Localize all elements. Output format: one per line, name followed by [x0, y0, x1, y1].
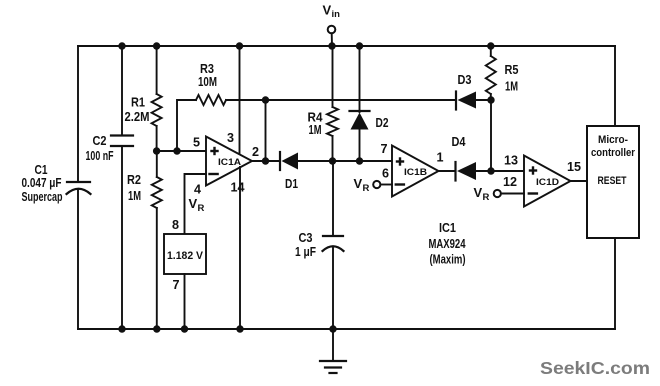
svg-text:V: V [354, 176, 363, 191]
svg-text:C1: C1 [35, 163, 48, 177]
wire R3 left drop [177, 100, 196, 151]
wire right edge lower [614, 238, 616, 329]
op-amp IC1D [524, 156, 571, 207]
svg-text:Supercap: Supercap [22, 190, 63, 204]
svg-text:6: 6 [382, 167, 389, 181]
op-amp IC1B [392, 146, 439, 197]
resistor R2 [152, 177, 162, 208]
svg-text:D4: D4 [452, 135, 466, 149]
diode D3 [456, 92, 476, 110]
junction D3/R5 [487, 96, 494, 103]
svg-text:V: V [323, 3, 332, 18]
junction R4/C3 node [329, 157, 336, 164]
ground [320, 361, 346, 373]
terminal VR pin6 circle [373, 181, 380, 188]
wire R1 lower [156, 126, 158, 151]
svg-text:1M: 1M [128, 189, 141, 203]
junction R2 bottom [153, 325, 160, 332]
svg-text:3: 3 [227, 131, 234, 145]
wire R4 lower [332, 136, 334, 161]
wire left edge upper (above C1) [77, 46, 79, 182]
capacitor C1 [67, 182, 91, 194]
microcontroller box [587, 126, 639, 238]
junction R3 left drop [173, 147, 180, 154]
junction D2 bottom node [356, 157, 363, 164]
resistor R5 [486, 56, 496, 94]
svg-text:R: R [363, 183, 370, 194]
wire D1 to IC1B [298, 160, 392, 162]
wire left edge lower (below C1) [77, 189, 79, 329]
label IC1 MAX924 [429, 220, 467, 267]
terminal VR pin12 circle [494, 190, 501, 197]
svg-text:1.182 V: 1.182 V [167, 250, 204, 262]
junction R1 top [153, 42, 160, 49]
label R3 value [198, 62, 217, 89]
wire C3 lower [332, 247, 334, 330]
op-amp IC1A [206, 137, 252, 186]
svg-text:7: 7 [172, 278, 179, 292]
junction R5 top [487, 42, 494, 49]
svg-text:R1: R1 [131, 96, 145, 110]
wire IC1A output [252, 160, 280, 162]
svg-text:2: 2 [252, 145, 259, 159]
label C3 value [295, 231, 316, 259]
svg-text:D2: D2 [376, 116, 389, 130]
wire R5 upper [490, 46, 492, 56]
svg-text:IC1A: IC1A [218, 157, 241, 168]
svg-text:IC1B: IC1B [404, 167, 427, 178]
wire R5 lower [490, 94, 492, 100]
wire R3 right to D3 [226, 99, 456, 101]
wire C2 upper [121, 46, 123, 136]
svg-text:100 nF: 100 nF [86, 149, 114, 163]
wire bottom ground rail [78, 328, 615, 330]
svg-text:8: 8 [172, 218, 179, 232]
svg-text:7: 7 [380, 142, 387, 156]
wire R2 upper [156, 151, 158, 177]
wire pin14 ground [239, 167, 241, 329]
svg-text:1: 1 [436, 151, 443, 165]
junction C2 bottom [118, 325, 125, 332]
wire ref box to ground [184, 274, 186, 329]
wire top supply rail [78, 45, 615, 47]
wire pin3 supply [239, 46, 241, 155]
svg-text:D3: D3 [458, 73, 472, 87]
svg-text:MAX924: MAX924 [429, 236, 467, 251]
svg-text:2.2M: 2.2M [125, 110, 150, 124]
svg-text:RESET: RESET [598, 175, 627, 187]
wire pin4 inverting input [185, 174, 207, 234]
wire Vin to top rail [331, 33, 333, 46]
capacitor C2 [111, 136, 133, 147]
label R2 value [127, 173, 141, 203]
svg-text:R: R [198, 203, 205, 214]
junction node A (R1/R2/pin5) [153, 147, 160, 154]
label VR node [189, 196, 205, 214]
diode D1 [280, 152, 298, 170]
wire D2 upper [359, 46, 361, 112]
svg-text:C2: C2 [93, 134, 107, 148]
svg-text:14: 14 [230, 181, 244, 195]
svg-text:R2: R2 [127, 173, 141, 187]
svg-text:IC1D: IC1D [536, 177, 559, 188]
diode D4 [456, 162, 477, 181]
junction D4/R5 node [487, 167, 494, 174]
wire D3 to R5 node [476, 99, 491, 101]
wire R5-D3 node drop [490, 100, 492, 171]
svg-text:1M: 1M [505, 80, 518, 94]
svg-text:(Maxim): (Maxim) [430, 252, 466, 267]
svg-text:SeekIC.com: SeekIC.com [540, 358, 650, 378]
terminal Vin circle [328, 26, 336, 34]
svg-text:10M: 10M [198, 75, 217, 89]
svg-text:R5: R5 [505, 63, 519, 77]
svg-text:1 μF: 1 μF [295, 245, 316, 259]
svg-text:1M: 1M [309, 123, 322, 137]
svg-text:0.047 μF: 0.047 μF [22, 176, 62, 190]
wire C2 lower [121, 146, 123, 329]
diode D2 [350, 111, 370, 130]
svg-text:V: V [474, 185, 483, 200]
label R1 value [125, 96, 150, 125]
label C1 value [22, 163, 63, 204]
svg-text:13: 13 [504, 154, 518, 168]
junction Vin/top rail [328, 42, 335, 49]
svg-text:controller: controller [591, 147, 636, 159]
wire D4 to IC1D [476, 170, 524, 172]
svg-text:4: 4 [194, 183, 201, 197]
junction C2 top [118, 42, 125, 49]
wire IC1D output to microcontroller [571, 180, 588, 182]
wire R4 upper [332, 46, 334, 107]
label Vin [323, 3, 341, 21]
resistor R4 [327, 107, 338, 136]
junction output/feedback [262, 157, 269, 164]
svg-text:D1: D1 [285, 177, 298, 191]
wire pin6 stub [380, 184, 392, 186]
resistor R3 [196, 95, 226, 105]
wire C3 upper [332, 161, 334, 236]
resistor R1 [152, 94, 162, 126]
svg-text:Micro-: Micro- [598, 134, 628, 146]
wire right edge upper [614, 46, 616, 126]
label C2 value [86, 134, 114, 163]
junction pin3/top rail [236, 42, 243, 49]
wire feedback drop to output node [265, 100, 267, 161]
svg-text:R3: R3 [200, 62, 214, 76]
svg-text:V: V [189, 196, 198, 211]
junction C3/ground [329, 325, 336, 332]
svg-text:in: in [332, 9, 341, 20]
junction ref/bottom rail [181, 325, 188, 332]
label VR pin6 [354, 176, 370, 194]
wire pin5 input rail [157, 150, 206, 152]
svg-text:R: R [483, 192, 490, 203]
wire D2 lower [359, 130, 361, 162]
label R4 value [308, 111, 323, 138]
wire ground stem [332, 329, 334, 361]
junction R3/feedback drop [262, 96, 269, 103]
svg-text:C3: C3 [299, 231, 313, 245]
capacitor C3 [323, 236, 344, 251]
svg-text:15: 15 [567, 160, 581, 174]
wire R2 lower [156, 208, 158, 329]
svg-text:5: 5 [193, 136, 200, 150]
svg-text:12: 12 [503, 175, 517, 189]
wire pin12 stub [501, 193, 524, 195]
label R5 value [505, 63, 519, 94]
voltage reference 1.182V box [164, 234, 206, 274]
wire IC1B output [439, 170, 456, 172]
junction D2 top [356, 42, 363, 49]
label VR pin12 [474, 185, 490, 203]
junction pin14/bottom rail [236, 325, 243, 332]
svg-text:IC1: IC1 [439, 220, 456, 235]
wire R1 upper [156, 46, 158, 94]
